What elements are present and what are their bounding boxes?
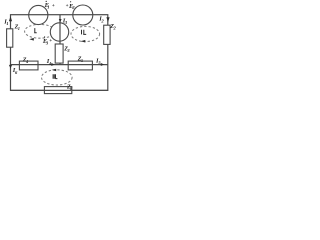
svg-text:+: + [49, 39, 52, 44]
svg-text:1: 1 [18, 26, 20, 31]
svg-text:1: 1 [6, 21, 8, 26]
svg-text:1: 1 [47, 4, 49, 9]
svg-text:+: + [52, 4, 55, 9]
svg-text:+: + [66, 4, 69, 9]
